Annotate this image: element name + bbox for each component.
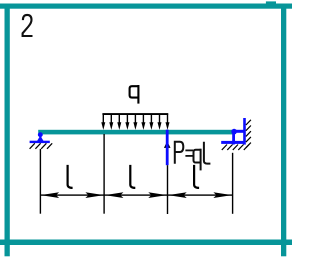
label q [130, 85, 139, 104]
left support pin [38, 132, 43, 137]
left support base [30, 141, 50, 143]
extension line 2 [103, 134, 104, 214]
frame left bar [5, 4, 10, 257]
label 2 [23, 15, 33, 36]
distributed load arrows [101, 114, 169, 130]
dim arrow seg2 left [105, 192, 124, 198]
dim label l segment 2 [130, 165, 135, 188]
extension line 1 [40, 149, 41, 214]
head drawn under line [164, 141, 171, 148]
left support stem flare [37, 138, 44, 141]
right support wall line [243, 118, 246, 145]
distributed load top line [102, 113, 168, 115]
extension line 3 [167, 165, 168, 214]
dim label l segment 1 [68, 165, 73, 188]
dim arrow seg2 right [148, 192, 167, 198]
force label P=ql [175, 142, 211, 171]
right support top bar [234, 130, 245, 133]
dim arrow seg1 left [41, 192, 60, 198]
dim arrow seg1 right [85, 192, 104, 198]
right support wall hatching [246, 120, 251, 148]
left support hatching [30, 143, 53, 149]
dimension line [40, 194, 233, 195]
frame top nub [266, 1, 276, 5]
beam [38, 130, 233, 135]
left support stem [39, 134, 41, 141]
dim arrow seg3 right [213, 192, 232, 198]
dim label l segment 3 [194, 165, 199, 188]
dim arrow seg3 left [168, 192, 187, 198]
force P line [164, 130, 171, 166]
frame bottom bar [0, 240, 292, 246]
extension line 4 [232, 153, 233, 214]
right support left bar [232, 131, 235, 144]
right support pin [231, 129, 237, 135]
frame top bar [0, 4, 292, 9]
right support floor hatching [222, 145, 249, 150]
right support floor line [221, 141, 245, 144]
frame right bar [281, 4, 286, 257]
right support floor pin [231, 140, 235, 144]
